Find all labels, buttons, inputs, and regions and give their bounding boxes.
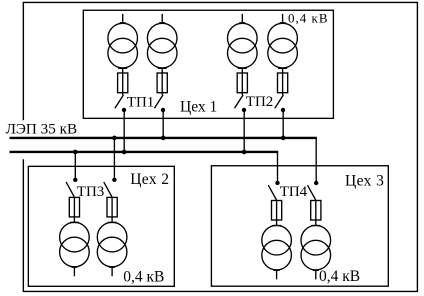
bus wire: upper ЛЭП 35 кВ line <box>10 137 317 139</box>
disconnector switch blade (ТП3 right) <box>104 182 112 197</box>
junction on lower bus (ТП1 left) <box>122 150 127 155</box>
disconnector switch blade (ТП2 left) <box>235 95 244 108</box>
wire fuse to switch (ТП1 left) <box>122 93 124 95</box>
svg-text:0,4 кВ: 0,4 кВ <box>319 268 360 285</box>
disconnector switch blade (ТП1 right) <box>154 95 163 108</box>
wire LV stub (ТП4 left) <box>274 270 280 280</box>
fuse ТП3 right <box>107 197 117 217</box>
workshop box Цех 3 <box>211 166 388 286</box>
svg-text:Цех 3: Цех 3 <box>345 172 384 189</box>
junction on upper bus (ТП3 right) <box>112 136 117 141</box>
wire LV stub (ТП1 right) <box>159 14 165 23</box>
wire upper bus to switch (ТП3 right) <box>113 138 115 180</box>
wire fuse to transformer (ТП3 right) <box>108 217 117 223</box>
node: switch contact (ТП3 right) <box>112 178 116 182</box>
fuse ТП1 left <box>118 73 128 93</box>
fuse ТП3 left <box>69 197 79 217</box>
fuse ТП4 right <box>311 201 321 221</box>
fuse ТП4 left <box>272 201 282 221</box>
disconnector switch blade (ТП4 right) <box>308 185 316 200</box>
wire fuse to transformer (ТП4 right) <box>311 220 320 226</box>
wire lower bus to switch (ТП3 left) <box>74 152 76 180</box>
transformer ТП1 right (two windings) <box>147 23 177 68</box>
wire fuse to switch (ТП1 right) <box>161 93 163 95</box>
wire fuse to switch (ТП2 right) <box>282 93 284 95</box>
wire lower bus turn-down to switch (ТП4 left) <box>277 152 279 183</box>
transformer ТП4 left (two windings) <box>262 225 292 270</box>
wire fuse to switch (ТП2 left) <box>241 93 243 95</box>
svg-text:ТП2: ТП2 <box>246 94 273 110</box>
svg-text:0,4 кВ: 0,4 кВ <box>123 268 164 285</box>
wire transformer to fuse (ТП1 right) <box>158 68 167 73</box>
fuse ТП1 right <box>157 73 167 93</box>
wire LV stub (ТП3 right) <box>109 267 115 277</box>
wire LV stub (ТП2 right) <box>280 14 286 23</box>
wire LV stub (ТП2 left) <box>239 14 245 23</box>
svg-text:ЛЭП 35 кВ: ЛЭП 35 кВ <box>6 121 78 138</box>
svg-text:Цех 2: Цех 2 <box>130 171 169 188</box>
transformer ТП3 left (two windings) <box>60 222 90 266</box>
bus wire: lower ЛЭП 35 кВ line <box>10 151 279 153</box>
wire LV stub (ТП3 left) <box>71 267 77 277</box>
junction on upper bus (ТП1 right) <box>161 136 166 141</box>
svg-text:Цех 1: Цех 1 <box>180 99 217 116</box>
junction on lower bus (ТП3 left) <box>73 150 78 155</box>
node: switch contact (ТП2 right) <box>281 108 285 112</box>
junction on lower bus (ТП2 left) <box>242 150 247 155</box>
node: switch contact (ТП1 left) <box>122 108 126 112</box>
workshop box Цех 1 <box>83 10 333 118</box>
transformer ТП2 right (two windings) <box>268 23 298 68</box>
disconnector switch blade (ТП4 left) <box>268 185 276 200</box>
wire upper bus turn-down to switch (ТП4 right) <box>315 138 317 183</box>
node: switch contact (ТП4 left) <box>275 181 279 185</box>
svg-text:0,4 кВ: 0,4 кВ <box>288 10 329 25</box>
fuse ТП2 left <box>237 73 247 93</box>
svg-text:ТП4: ТП4 <box>280 184 308 200</box>
workshop box Цех 2 <box>28 166 174 286</box>
disconnector switch blade (ТП3 left) <box>66 182 74 197</box>
junction on upper bus (ТП2 right) <box>281 136 286 141</box>
node: switch contact (ТП4 right) <box>314 181 318 185</box>
node: switch contact (ТП1 right) <box>161 108 165 112</box>
wire switch to upper bus (ТП2 right) <box>282 110 284 138</box>
wire switch to lower bus (ТП2 left) <box>243 110 245 152</box>
wire LV stub (ТП1 left) <box>120 14 126 23</box>
fuse ТП2 right <box>278 73 288 93</box>
wire switch to upper bus (ТП1 right) <box>162 110 164 138</box>
wire transformer to fuse (ТП2 right) <box>278 68 287 73</box>
wire LV stub (ТП4 right) <box>313 270 319 280</box>
disconnector switch blade (ТП2 right) <box>275 95 284 108</box>
disconnector switch blade (ТП1 left) <box>115 95 124 108</box>
wire fuse to transformer (ТП4 left) <box>272 220 281 226</box>
node: switch contact (ТП2 left) <box>242 108 246 112</box>
transformer ТП1 left (two windings) <box>108 23 138 68</box>
transformer ТП3 right (two windings) <box>97 222 127 266</box>
transformer ТП4 right (two windings) <box>301 225 331 270</box>
transformer ТП2 left (two windings) <box>228 23 258 68</box>
svg-text:ТП3: ТП3 <box>77 184 105 200</box>
svg-text:ТП1: ТП1 <box>127 94 155 110</box>
wire transformer to fuse (ТП2 left) <box>238 68 247 73</box>
node: switch contact (ТП3 left) <box>73 178 77 182</box>
wire switch to lower bus (ТП1 left) <box>123 110 125 152</box>
wire transformer to fuse (ТП1 left) <box>118 68 127 73</box>
wire fuse to transformer (ТП3 left) <box>70 217 79 223</box>
